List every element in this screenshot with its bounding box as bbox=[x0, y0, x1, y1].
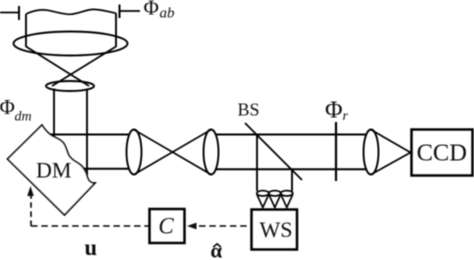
lens L3 bbox=[364, 130, 379, 175]
svg-text:α: α bbox=[210, 239, 222, 260]
lenslet 1 ellipse bbox=[257, 191, 269, 196]
arrowhead into C bbox=[187, 223, 197, 230]
right wavefront marker line bbox=[120, 10, 141, 12]
WS box bbox=[252, 210, 298, 250]
svg-text:Φ: Φ bbox=[325, 98, 343, 124]
dashed feedback line C to corner bbox=[31, 225, 150, 227]
eye lens ellipse bbox=[14, 32, 128, 56]
CCD box bbox=[412, 130, 473, 176]
dashed feedback line WS to C bbox=[199, 225, 252, 227]
reflected beam right vertical bbox=[291, 169, 293, 191]
converging ray right bbox=[52, 47, 116, 87]
phi_r plane tick bbox=[335, 122, 337, 181]
relay crossing ray 2 bbox=[134, 130, 211, 175]
lenslet 3 ellipse bbox=[281, 191, 293, 196]
small collimating lens bbox=[46, 81, 94, 91]
focusing ray top to CCD bbox=[371, 130, 411, 153]
deformable mirror DM body bbox=[8, 125, 96, 215]
svg-text:DM: DM bbox=[36, 157, 71, 182]
reflected beam left vertical bbox=[256, 135, 258, 192]
dashed feedback vertical to DM bbox=[30, 196, 32, 226]
svg-text:BS: BS bbox=[238, 100, 260, 120]
svg-text:WS: WS bbox=[260, 217, 293, 242]
vertical beam tube right bbox=[86, 89, 88, 176]
vertical beam tube left bbox=[53, 89, 55, 141]
horizontal beam top line (L2 to L3) bbox=[216, 134, 366, 136]
right wavefront marker tick bbox=[119, 5, 121, 19]
left wavefront marker line bbox=[0, 12, 19, 14]
beam edge left vertical into eye lens bbox=[25, 14, 27, 47]
horizontal beam top line (DM to lens L1) bbox=[47, 134, 130, 136]
svg-text:Φ: Φ bbox=[0, 95, 15, 119]
svg-text:Φ: Φ bbox=[144, 0, 159, 20]
lenslet 2 cone bbox=[269, 194, 281, 207]
relay crossing ray 1 bbox=[134, 130, 211, 175]
lens L1 bbox=[127, 130, 142, 175]
aberrated wavefront wave bbox=[26, 9, 116, 14]
arrowhead to DM bbox=[27, 186, 34, 196]
svg-text:C: C bbox=[158, 214, 174, 239]
horizontal beam bottom line (DM to lens L1) bbox=[78, 168, 129, 170]
beam splitter BS diagonal bbox=[245, 123, 302, 180]
svg-text:r: r bbox=[343, 109, 349, 124]
svg-text:ab: ab bbox=[160, 6, 176, 22]
svg-text:CCD: CCD bbox=[417, 139, 467, 166]
controller C box bbox=[150, 209, 185, 243]
lenslet 3 cone bbox=[281, 194, 293, 207]
svg-text:u: u bbox=[85, 235, 98, 260]
lens L2 bbox=[204, 130, 219, 175]
lenslet 2 ellipse bbox=[269, 191, 281, 196]
beam edge right vertical into eye lens bbox=[115, 13, 117, 47]
focusing ray bottom to CCD bbox=[371, 153, 411, 175]
left wavefront marker tick bbox=[18, 6, 20, 20]
converging ray left bbox=[26, 47, 89, 87]
lenslet 1 cone bbox=[257, 194, 269, 207]
horizontal beam bottom line (L2 to L3) bbox=[216, 168, 366, 170]
svg-text:dm: dm bbox=[15, 110, 32, 125]
